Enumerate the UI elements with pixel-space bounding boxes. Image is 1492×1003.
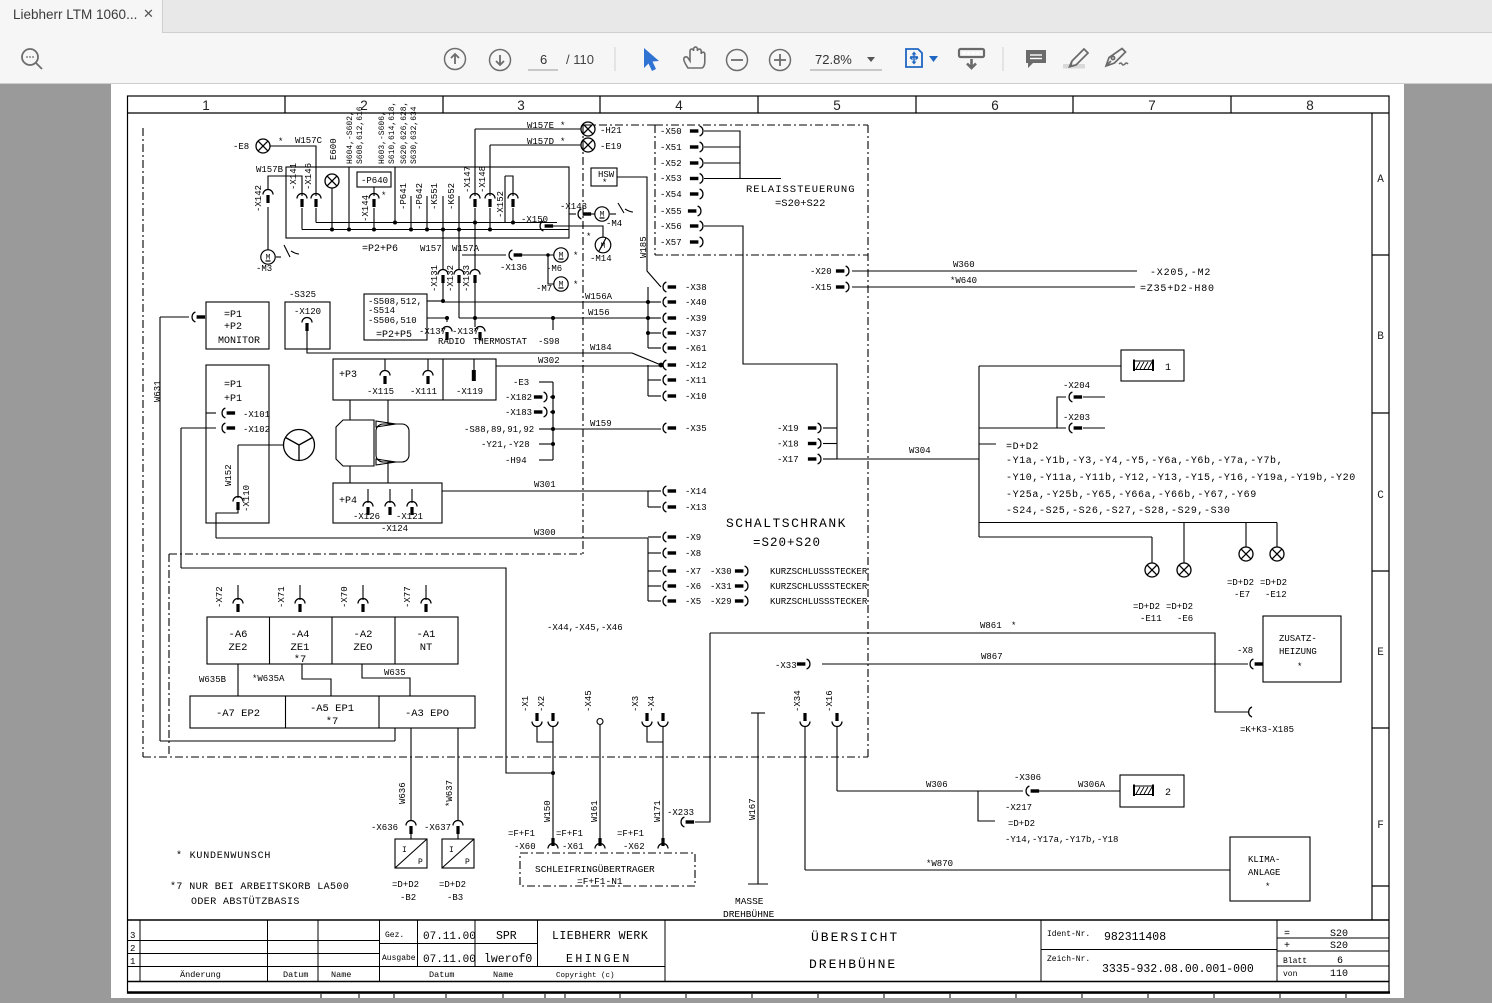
svg-text:W867: W867 (981, 652, 1003, 662)
svg-text:E600: E600 (329, 138, 339, 160)
svg-text:W161: W161 (590, 800, 600, 822)
svg-text:Datum: Datum (429, 970, 455, 980)
svg-text:-X14: -X14 (685, 487, 707, 497)
svg-text:NT: NT (420, 642, 433, 654)
svg-text:-X143: -X143 (560, 202, 587, 212)
svg-text:-S88,89,91,92: -S88,89,91,92 (464, 425, 534, 435)
svg-text:*: * (560, 137, 565, 147)
svg-text:*: * (1297, 662, 1302, 672)
svg-text:W157D: W157D (527, 137, 554, 147)
svg-text:-S98: -S98 (538, 337, 560, 347)
svg-text:+P4: +P4 (339, 496, 357, 507)
svg-text:-B3: -B3 (447, 893, 463, 903)
svg-text:-X132: -X132 (446, 265, 456, 292)
svg-text:-X11: -X11 (685, 376, 707, 386)
svg-text:-X137: -X137 (452, 327, 479, 337)
svg-text:=D+D2: =D+D2 (1227, 578, 1254, 588)
svg-text:-X182: -X182 (505, 393, 532, 403)
svg-text:6: 6 (1337, 956, 1343, 967)
svg-text:C: C (1377, 490, 1384, 502)
svg-text:=K+K3-X185: =K+K3-X185 (1240, 725, 1294, 735)
svg-text:-X133: -X133 (462, 265, 472, 292)
svg-text:P: P (465, 858, 470, 867)
svg-text:S20: S20 (1330, 941, 1348, 952)
svg-text:-X7: -X7 (685, 567, 701, 577)
svg-text:W301: W301 (534, 480, 556, 490)
svg-text:S630,632,634: S630,632,634 (410, 106, 419, 164)
svg-text:-X144: -X144 (361, 195, 371, 222)
svg-text:-Y10,-Y11a,-Y11b,-Y12,-Y13,-Y1: -Y10,-Y11a,-Y11b,-Y12,-Y13,-Y15,-Y16,-Y1… (1006, 472, 1356, 484)
svg-text:-X233: -X233 (667, 808, 694, 818)
svg-text:=P1: =P1 (224, 380, 242, 391)
svg-text:-A7 EP2: -A7 EP2 (216, 708, 260, 720)
svg-text:-X72: -X72 (215, 586, 225, 608)
svg-text:-X124: -X124 (381, 524, 408, 534)
svg-text:110: 110 (1330, 969, 1348, 980)
svg-text:4: 4 (675, 98, 683, 113)
svg-text:W636: W636 (398, 782, 408, 804)
svg-text:6: 6 (991, 98, 999, 113)
svg-text:=P1: =P1 (224, 310, 242, 321)
svg-text:-E12: -E12 (1265, 590, 1287, 600)
svg-text:-X57: -X57 (660, 238, 682, 248)
svg-text:lwerof0: lwerof0 (484, 953, 532, 966)
svg-text:-E3: -E3 (513, 378, 529, 388)
svg-text:-Y25a,-Y25b,-Y65,-Y66a,-Y66b,-: -Y25a,-Y25b,-Y65,-Y66a,-Y66b,-Y67,-Y69 (1006, 489, 1257, 501)
svg-text:-X636: -X636 (371, 823, 398, 833)
svg-text:-X150: -X150 (521, 215, 548, 225)
svg-text:-X3: -X3 (631, 696, 641, 712)
svg-text:=F+F1-N1: =F+F1-N1 (577, 876, 623, 887)
svg-text:=D+D2: =D+D2 (439, 880, 466, 890)
svg-text:-X131: -X131 (430, 265, 440, 292)
svg-text:-M6: -M6 (546, 264, 562, 274)
svg-text:H603,-S606,: H603,-S606, (378, 111, 387, 164)
svg-text:-X40: -X40 (685, 298, 707, 308)
svg-text:-X15: -X15 (810, 283, 832, 293)
svg-text:W184: W184 (590, 343, 612, 353)
svg-text:ZE2: ZE2 (229, 642, 248, 654)
svg-text:RELAISSTEUERUNG: RELAISSTEUERUNG (746, 184, 856, 196)
svg-text:EHINGEN: EHINGEN (566, 953, 632, 966)
svg-text:-X30: -X30 (710, 567, 732, 577)
svg-text:Zeich-Nr.: Zeich-Nr. (1047, 955, 1090, 964)
svg-text:-X8: -X8 (1237, 646, 1253, 656)
svg-text:+P1: +P1 (224, 394, 242, 405)
svg-text:HEIZUNG: HEIZUNG (1279, 647, 1317, 657)
svg-text:-X136: -X136 (500, 263, 527, 273)
svg-text:*W637: *W637 (445, 780, 455, 807)
svg-text:P: P (418, 858, 423, 867)
svg-text:*W640: *W640 (950, 276, 977, 286)
svg-text:-A6: -A6 (229, 629, 248, 641)
svg-text:-X205,-M2: -X205,-M2 (1150, 268, 1211, 279)
svg-text:-X61: -X61 (562, 842, 584, 852)
svg-text:7: 7 (1148, 98, 1156, 113)
svg-text:W171: W171 (653, 800, 663, 822)
svg-text:-X5: -X5 (685, 597, 701, 607)
svg-text:*W635A: *W635A (252, 674, 285, 684)
svg-text:ÜBERSICHT: ÜBERSICHT (811, 930, 899, 945)
svg-text:982311408: 982311408 (1104, 931, 1166, 944)
svg-text:Name: Name (493, 970, 513, 980)
svg-text:-X70: -X70 (340, 586, 350, 608)
svg-text:* KUNDENWUNSCH: * KUNDENWUNSCH (176, 850, 271, 862)
svg-text:6: 6 (540, 52, 547, 67)
svg-text:Datum: Datum (283, 970, 309, 980)
svg-text:-Y1a,-Y1b,-Y3,-Y4,-Y5,-Y6a,-Y6: -Y1a,-Y1b,-Y3,-Y4,-Y5,-Y6a,-Y6b,-Y7a,-Y7… (1006, 455, 1283, 467)
svg-text:-X111: -X111 (410, 387, 437, 397)
svg-text:-X51: -X51 (660, 143, 682, 153)
svg-text:*W870: *W870 (926, 859, 953, 869)
svg-text:I: I (449, 846, 454, 855)
svg-text:-X146: -X146 (304, 163, 314, 190)
svg-text:Änderung: Änderung (180, 970, 221, 980)
svg-text:-Y14,-Y17a,-Y17b,-Y18: -Y14,-Y17a,-Y17b,-Y18 (1005, 835, 1118, 845)
svg-text:SPR: SPR (496, 930, 517, 943)
svg-text:ZEO: ZEO (354, 642, 373, 654)
svg-text:-X147: -X147 (463, 166, 473, 193)
svg-text:-X31: -X31 (710, 582, 732, 592)
svg-text:-X148: -X148 (478, 166, 488, 193)
svg-text:ZE1: ZE1 (291, 642, 310, 654)
svg-text:-X142: -X142 (254, 185, 264, 212)
svg-text:*7: *7 (326, 716, 339, 728)
svg-text:2: 2 (1165, 788, 1171, 799)
svg-text:-X33: -X33 (775, 661, 797, 671)
svg-text:-X71: -X71 (277, 586, 287, 608)
svg-text:-M3: -M3 (256, 264, 272, 274)
svg-text:ODER ABSTÜTZBASIS: ODER ABSTÜTZBASIS (191, 895, 300, 908)
svg-text:Name: Name (331, 970, 351, 980)
svg-text:-X13: -X13 (685, 503, 707, 513)
svg-text:*: * (586, 232, 591, 242)
svg-text:-X8: -X8 (685, 549, 701, 559)
svg-text:W302: W302 (538, 356, 560, 366)
svg-text:-E6: -E6 (1177, 614, 1193, 624)
svg-text:-X61: -X61 (685, 344, 707, 354)
svg-text:W185: W185 (639, 236, 649, 258)
svg-text:-E8: -E8 (233, 142, 249, 152)
svg-text:=P2+P6: =P2+P6 (362, 244, 398, 255)
svg-text:I: I (402, 846, 407, 855)
svg-text:-E19: -E19 (600, 142, 622, 152)
svg-text:=F+F1: =F+F1 (556, 829, 583, 839)
svg-text:-X110: -X110 (242, 485, 252, 512)
svg-text:W631: W631 (153, 380, 163, 402)
svg-text:72.8%: 72.8% (815, 52, 852, 67)
svg-text:W300: W300 (534, 528, 556, 538)
svg-text:W157A: W157A (452, 244, 480, 254)
svg-text:-Y21,-Y28: -Y21,-Y28 (481, 440, 530, 450)
svg-text:07.11.00: 07.11.00 (423, 931, 476, 943)
svg-text:-E7: -E7 (1234, 590, 1250, 600)
svg-text:-X45: -X45 (584, 690, 594, 712)
svg-text:-X20: -X20 (810, 267, 832, 277)
svg-text:ANLAGE: ANLAGE (1248, 868, 1280, 878)
svg-text:-H21: -H21 (600, 126, 622, 136)
svg-text:+P3: +P3 (339, 370, 357, 381)
svg-text:+P2: +P2 (224, 322, 242, 333)
svg-text:=D+D2: =D+D2 (392, 880, 419, 890)
svg-text:W159: W159 (590, 419, 612, 429)
svg-text:-X62: -X62 (623, 842, 645, 852)
svg-text:MASSE: MASSE (735, 896, 764, 907)
svg-text:-X44,-X45,-X46: -X44,-X45,-X46 (547, 623, 623, 633)
svg-text:=D+D2: =D+D2 (1008, 819, 1035, 829)
svg-text:-M14: -M14 (590, 254, 612, 264)
svg-text:=P2+P5: =P2+P5 (376, 330, 412, 341)
svg-text:W167: W167 (748, 798, 758, 820)
svg-text:-X137: -X137 (419, 327, 446, 337)
svg-text:M: M (601, 242, 606, 251)
svg-text:-X77: -X77 (403, 586, 413, 608)
svg-text:-X306: -X306 (1014, 773, 1041, 783)
svg-text:W635B: W635B (199, 675, 227, 685)
svg-text:=D+D2: =D+D2 (1006, 442, 1039, 453)
svg-text:-X119: -X119 (456, 387, 483, 397)
svg-text:S620,626,628,: S620,626,628, (400, 102, 409, 164)
svg-text:-X53: -X53 (660, 174, 682, 184)
svg-text:-A5 EP1: -A5 EP1 (310, 703, 354, 715)
svg-text:-X38: -X38 (685, 283, 707, 293)
svg-text:S20: S20 (1330, 929, 1348, 940)
svg-text:-X34: -X34 (793, 690, 803, 712)
svg-text:W861: W861 (980, 621, 1002, 631)
svg-text:-E11: -E11 (1140, 614, 1162, 624)
svg-text:-X1: -X1 (521, 696, 531, 712)
svg-text:*7 NUR BEI ARBEITSKORB LA500: *7 NUR BEI ARBEITSKORB LA500 (170, 881, 349, 893)
svg-text:-S24,-S25,-S26,-S27,-S28,-S29,: -S24,-S25,-S26,-S27,-S28,-S29,-S30 (1006, 506, 1230, 517)
svg-text:W157E: W157E (527, 121, 554, 131)
svg-text:=D+D2: =D+D2 (1260, 578, 1287, 588)
svg-text:-X9: -X9 (685, 533, 701, 543)
svg-text:-X2: -X2 (537, 696, 547, 712)
svg-text:-S514: -S514 (368, 306, 395, 316)
svg-text:-B2: -B2 (400, 893, 416, 903)
svg-text:-A3 EPO: -A3 EPO (405, 708, 449, 720)
svg-text:W156A: W156A (585, 292, 613, 302)
svg-text:-X56: -X56 (660, 222, 682, 232)
svg-text:-X54: -X54 (660, 190, 682, 200)
svg-text:*: * (573, 280, 578, 290)
svg-text:-X121: -X121 (396, 512, 423, 522)
svg-text:8: 8 (1306, 98, 1314, 113)
svg-text:*: * (602, 178, 607, 188)
svg-text:B: B (1377, 331, 1384, 343)
svg-text:3335-932.08.00.001-000: 3335-932.08.00.001-000 (1102, 963, 1254, 976)
svg-text:-X10: -X10 (685, 392, 707, 402)
svg-text:von: von (1283, 970, 1298, 979)
svg-text:RADIO: RADIO (438, 337, 465, 347)
svg-text:*: * (1011, 621, 1016, 631)
svg-text:-X217: -X217 (1005, 803, 1032, 813)
svg-text:-A1: -A1 (417, 629, 436, 641)
svg-text:-X204: -X204 (1063, 381, 1090, 391)
svg-text:-X120: -X120 (294, 307, 321, 317)
svg-text:-X637: -X637 (424, 823, 451, 833)
svg-text:-S325: -S325 (289, 290, 316, 300)
svg-text:LIEBHERR WERK: LIEBHERR WERK (552, 930, 648, 943)
svg-text:Copyright (c): Copyright (c) (556, 972, 615, 980)
svg-text:-X152: -X152 (496, 191, 506, 218)
svg-text:/ 110: / 110 (566, 52, 594, 67)
svg-text:*: * (381, 191, 386, 201)
svg-text:W157B: W157B (256, 165, 284, 175)
svg-text:=D+D2: =D+D2 (1166, 602, 1193, 612)
svg-text:-X29: -X29 (710, 597, 732, 607)
svg-text:W306: W306 (926, 780, 948, 790)
svg-text:-S506,510: -S506,510 (368, 316, 417, 326)
svg-text:W635: W635 (384, 668, 406, 678)
svg-text:KURZSCHLUSSSTECKER: KURZSCHLUSSSTECKER (770, 597, 868, 607)
svg-text:=S20+S22: =S20+S22 (775, 198, 825, 210)
svg-text:=: = (1284, 929, 1290, 940)
svg-text:-X50: -X50 (660, 127, 682, 137)
svg-text:-X12: -X12 (685, 361, 707, 371)
svg-text:3: 3 (130, 931, 135, 941)
svg-text:F: F (1377, 820, 1384, 832)
svg-text:*: * (560, 121, 565, 131)
svg-text:=F+F1: =F+F1 (617, 829, 644, 839)
svg-text:S608,612,616: S608,612,616 (356, 106, 365, 164)
svg-text:5: 5 (833, 98, 841, 113)
svg-text:*: * (1265, 882, 1270, 892)
svg-text:-X102: -X102 (243, 425, 270, 435)
svg-text:W152: W152 (224, 464, 234, 486)
svg-text:*: * (573, 251, 578, 261)
svg-text:-K652: -K652 (447, 183, 457, 210)
svg-text:H604,-S602,: H604,-S602, (346, 111, 355, 164)
svg-text:*7: *7 (294, 654, 307, 666)
svg-text:THERMOSTAT: THERMOSTAT (473, 337, 528, 347)
svg-text:=Z35+D2-H80: =Z35+D2-H80 (1140, 284, 1215, 295)
svg-text:DREHBÜHNE: DREHBÜHNE (809, 957, 897, 972)
svg-text:1: 1 (130, 957, 135, 967)
svg-text:A: A (1377, 174, 1384, 186)
svg-text:-P640: -P640 (361, 176, 388, 186)
svg-text:3: 3 (517, 98, 525, 113)
svg-text:2: 2 (130, 944, 135, 954)
svg-text:Ausgabe: Ausgabe (382, 954, 416, 963)
svg-text:SCHLEIFRINGÜBERTRAGER: SCHLEIFRINGÜBERTRAGER (535, 864, 655, 875)
svg-text:Gez.: Gez. (385, 931, 404, 940)
svg-text:-X35: -X35 (685, 424, 707, 434)
svg-text:*: * (278, 137, 283, 147)
svg-text:E: E (1377, 647, 1384, 659)
svg-text:1: 1 (202, 98, 210, 113)
svg-text:07.11.00: 07.11.00 (423, 954, 476, 966)
svg-text:W156: W156 (588, 308, 610, 318)
svg-text:KLIMA-: KLIMA- (1248, 855, 1280, 865)
svg-text:-M7: -M7 (536, 284, 552, 294)
svg-text:-X55: -X55 (660, 207, 682, 217)
svg-text:-X17: -X17 (777, 455, 799, 465)
svg-text:W157: W157 (420, 244, 442, 254)
svg-text:W360: W360 (953, 260, 975, 270)
svg-text:-X19: -X19 (777, 424, 799, 434)
svg-text:-X6: -X6 (685, 582, 701, 592)
svg-text:-X101: -X101 (243, 410, 270, 420)
svg-text:-A2: -A2 (354, 629, 373, 641)
svg-text:-X126: -X126 (353, 512, 380, 522)
svg-text:-X141: -X141 (289, 163, 299, 190)
svg-text:W306A: W306A (1078, 780, 1106, 790)
svg-text:=D+D2: =D+D2 (1133, 602, 1160, 612)
svg-text:-H94: -H94 (505, 456, 527, 466)
svg-text:1: 1 (1165, 363, 1171, 374)
svg-text:MONITOR: MONITOR (218, 336, 260, 347)
svg-text:-K551: -K551 (430, 183, 440, 210)
svg-text:KURZSCHLUSSSTECKER: KURZSCHLUSSSTECKER (770, 582, 868, 592)
svg-text:-X37: -X37 (685, 329, 707, 339)
svg-text:=F+F1: =F+F1 (508, 829, 535, 839)
svg-text:ZUSATZ-: ZUSATZ- (1279, 634, 1317, 644)
svg-text:-X203: -X203 (1063, 413, 1090, 423)
svg-text:-M4: -M4 (606, 219, 622, 229)
svg-text:-X39: -X39 (685, 314, 707, 324)
svg-text:-P642: -P642 (415, 183, 425, 210)
svg-text:-A4: -A4 (291, 629, 310, 641)
svg-text:S610,614,618,: S610,614,618, (388, 102, 397, 164)
svg-text:Blatt: Blatt (1283, 957, 1307, 966)
svg-text:W304: W304 (909, 446, 931, 456)
svg-text:Ident-Nr.: Ident-Nr. (1047, 930, 1090, 939)
svg-text:-X16: -X16 (825, 690, 835, 712)
svg-text:=S20+S20: =S20+S20 (753, 536, 821, 550)
svg-text:KURZSCHLUSSSTECKER: KURZSCHLUSSSTECKER (770, 567, 868, 577)
svg-text:W150: W150 (543, 800, 553, 822)
svg-text:-X18: -X18 (777, 440, 799, 450)
svg-text:-X115: -X115 (367, 387, 394, 397)
svg-text:+: + (1284, 941, 1290, 952)
svg-text:SCHALTSCHRANK: SCHALTSCHRANK (726, 516, 847, 531)
svg-text:-X183: -X183 (505, 408, 532, 418)
svg-text:-X4: -X4 (647, 696, 657, 712)
svg-text:-P641: -P641 (399, 183, 409, 210)
svg-text:W157C: W157C (295, 136, 323, 146)
svg-text:DREHBÜHNE: DREHBÜHNE (723, 909, 775, 920)
svg-text:-X60: -X60 (514, 842, 536, 852)
svg-text:-X52: -X52 (660, 159, 682, 169)
